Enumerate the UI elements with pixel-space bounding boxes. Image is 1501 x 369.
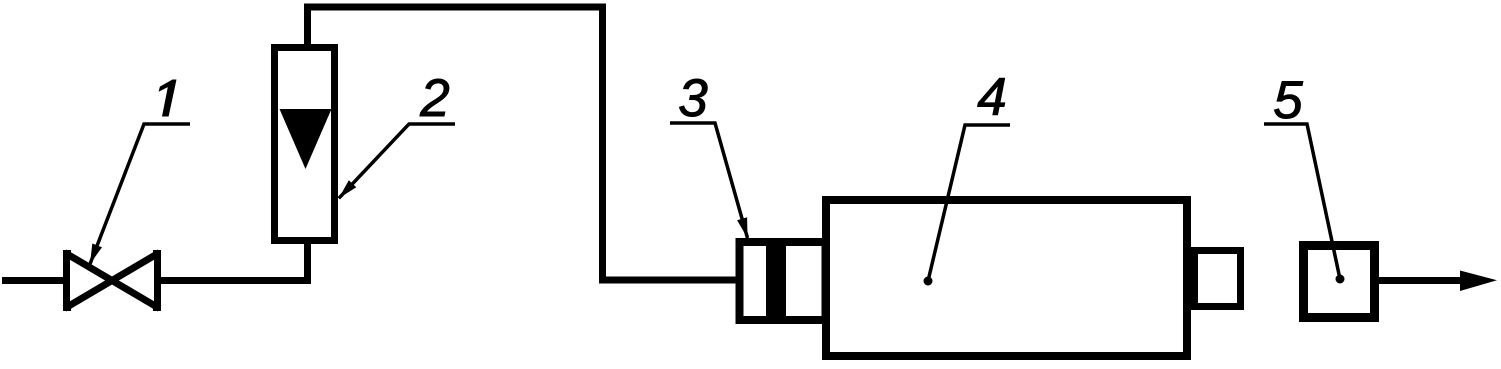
svg-text:3: 3 (678, 69, 708, 128)
svg-text:5: 5 (1273, 71, 1303, 130)
svg-text:4: 4 (977, 68, 1006, 127)
svg-text:2: 2 (419, 69, 449, 128)
